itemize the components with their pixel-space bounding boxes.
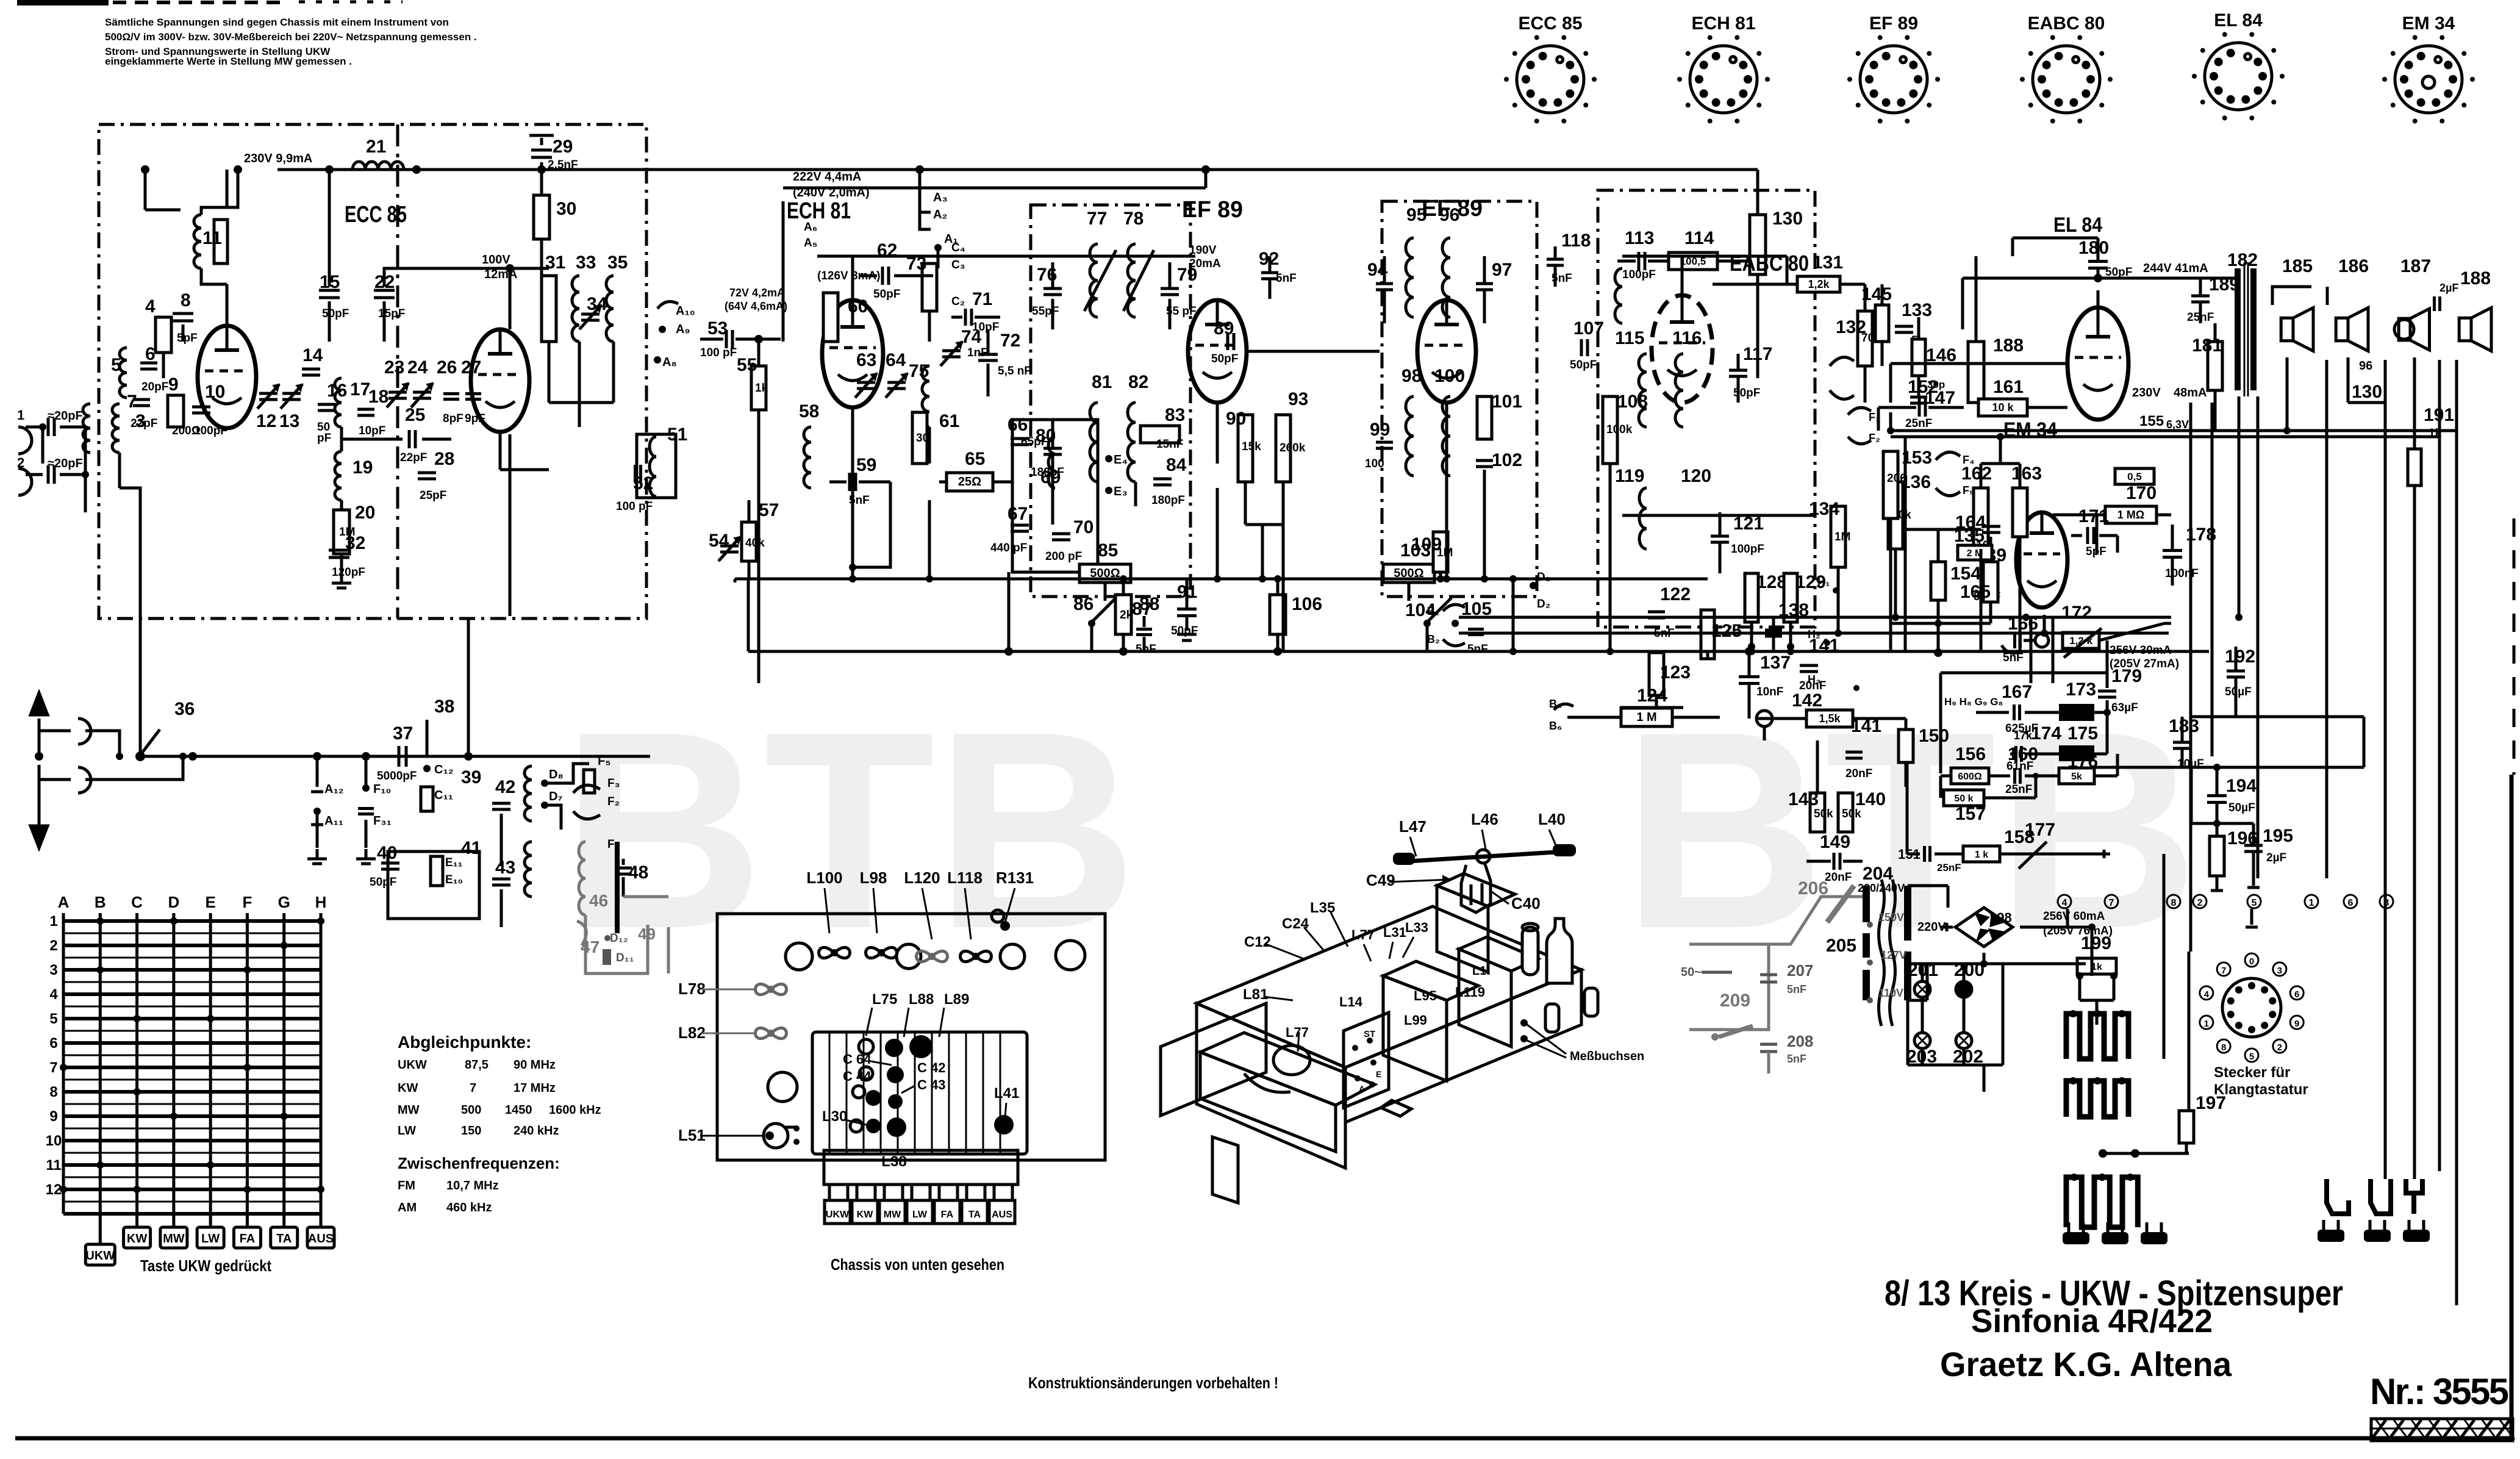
wire UKW out	[509, 434, 512, 616]
svg-text:160: 160	[2008, 744, 2038, 764]
svg-text:5nF: 5nF	[1787, 1053, 1806, 1065]
svg-text:7: 7	[470, 1081, 476, 1095]
svg-text:F₁₀: F₁₀	[373, 783, 392, 796]
wire input to box	[118, 453, 121, 488]
coil 3 input	[83, 404, 90, 416]
svg-text:73: 73	[906, 254, 926, 274]
coil 69	[1048, 437, 1055, 454]
EM34 tube	[2016, 512, 2067, 608]
svg-text:27: 27	[461, 357, 481, 378]
capacitor 18	[357, 408, 374, 411]
resistor 114	[1669, 253, 1717, 270]
svg-text:EM 34: EM 34	[2402, 13, 2455, 34]
EL84 tube	[2067, 307, 2128, 420]
svg-text:5000pF: 5000pF	[377, 770, 417, 783]
svg-text:187: 187	[2400, 256, 2431, 276]
svg-text:175: 175	[2067, 723, 2098, 744]
coil 19 osc	[335, 451, 342, 464]
svg-text:162: 162	[1961, 464, 1992, 484]
svg-text:D₁₂: D₁₂	[610, 932, 628, 945]
terminal A12 A11	[313, 752, 321, 761]
wire plug mid	[39, 729, 71, 733]
long vertical 3592	[2189, 403, 2192, 952]
svg-text:122: 122	[1660, 584, 1691, 604]
svg-text:30: 30	[556, 199, 576, 219]
svg-text:99: 99	[1370, 420, 1390, 440]
wire 30 down	[540, 239, 543, 342]
svg-text:L77: L77	[1351, 927, 1375, 942]
resistor 60	[823, 293, 838, 342]
svg-text:3: 3	[2384, 898, 2389, 908]
resistor 161 10k	[1978, 399, 2027, 416]
svg-text:135: 135	[1954, 526, 1985, 546]
box 66-70	[1012, 420, 1098, 572]
svg-text:12: 12	[256, 411, 276, 431]
svg-text:L100: L100	[806, 869, 842, 887]
svg-text:31: 31	[545, 253, 565, 273]
coil 33	[572, 276, 579, 292]
svg-text:84: 84	[1166, 455, 1187, 475]
svg-text:150: 150	[1919, 726, 1949, 746]
svg-text:UKW: UKW	[398, 1058, 427, 1072]
thick bar 46	[615, 842, 620, 933]
svg-text:22pF: 22pF	[400, 451, 427, 464]
capacitor C ant1	[26, 426, 43, 429]
svg-text:205: 205	[1826, 936, 1856, 956]
svg-text:90: 90	[1226, 409, 1246, 429]
svg-text:C40: C40	[1511, 894, 1541, 912]
svg-text:1,5k: 1,5k	[1819, 712, 1841, 725]
svg-text:50pF: 50pF	[873, 288, 900, 301]
svg-text:D₈: D₈	[549, 768, 564, 781]
diode terminals	[1830, 357, 1854, 366]
svg-text:Klangtastatur: Klangtastatur	[2214, 1081, 2308, 1098]
svg-text:5: 5	[2249, 1052, 2254, 1062]
svg-text:195: 195	[2263, 826, 2293, 846]
svg-text:L31: L31	[1383, 925, 1406, 940]
bottom border line	[15, 1436, 2513, 1441]
resistor 134	[1831, 506, 1845, 567]
svg-text:107: 107	[1573, 318, 1604, 339]
twin wire lower	[1459, 632, 2169, 635]
coil 75	[922, 366, 929, 381]
trimmer 12	[259, 392, 277, 395]
comb hook right 3	[2406, 1179, 2422, 1193]
wire bus left drop	[747, 579, 750, 651]
svg-text:L38: L38	[881, 1153, 906, 1170]
IF transformer 77 78	[1090, 244, 1098, 262]
svg-text:C 42: C 42	[917, 1060, 945, 1075]
capacitor 97	[1476, 282, 1493, 285]
svg-text:167: 167	[2002, 682, 2032, 702]
svg-text:102: 102	[1492, 450, 1522, 470]
perspective front box	[1200, 1052, 1336, 1152]
svg-text:440 pF: 440 pF	[990, 542, 1027, 554]
svg-text:B: B	[95, 893, 106, 911]
hatched bar	[2371, 1419, 2513, 1441]
svg-text:38: 38	[434, 697, 454, 717]
svg-text:MW: MW	[398, 1103, 420, 1117]
svg-text:230V: 230V	[2132, 386, 2161, 400]
capacitor 48	[615, 867, 632, 870]
wire 31-35 bottom	[549, 401, 614, 404]
svg-text:87,5: 87,5	[465, 1058, 489, 1072]
chassis lower panel	[824, 1150, 1018, 1185]
svg-text:180pF: 180pF	[1031, 466, 1064, 479]
svg-text:25nF: 25nF	[1905, 417, 1932, 430]
svg-text:2µF: 2µF	[2266, 851, 2286, 864]
wires speakers	[2272, 287, 2311, 305]
svg-text:7: 7	[2109, 898, 2114, 908]
svg-text:101: 101	[1492, 392, 1522, 412]
ground arrow	[38, 765, 41, 825]
leader lines top	[825, 888, 829, 933]
connector tabs right	[2318, 1230, 2344, 1242]
svg-text:7: 7	[49, 1059, 57, 1076]
svg-text:17 MHz: 17 MHz	[514, 1081, 556, 1095]
perspective can C tall	[1437, 886, 1488, 972]
svg-text:LW: LW	[201, 1232, 220, 1246]
svg-text:5: 5	[111, 355, 121, 375]
svg-text:9: 9	[2294, 1019, 2299, 1029]
wire 131 row	[1713, 283, 1797, 286]
svg-text:5nF: 5nF	[1467, 643, 1488, 656]
svg-text:48mA: 48mA	[2174, 386, 2207, 400]
wire net power	[2067, 909, 2092, 927]
capacitor 32 120pF	[329, 549, 349, 552]
gray mains wire bottom	[1689, 944, 1769, 1030]
wire 153 down	[1889, 412, 1892, 431]
svg-text:19: 19	[353, 457, 373, 478]
button FA	[234, 1227, 260, 1248]
capacitor 92 5nF	[1261, 271, 1278, 274]
svg-text:25pF: 25pF	[420, 489, 446, 502]
svg-text:Chassis von unten gesehen: Chassis von unten gesehen	[831, 1255, 1004, 1274]
svg-text:116: 116	[1672, 328, 1702, 348]
wire 125 129 to bus	[1706, 651, 1709, 659]
perspective foot	[1212, 1137, 1238, 1203]
svg-text:2: 2	[49, 937, 57, 954]
resistor 154	[1931, 562, 1945, 600]
node 100V	[506, 264, 514, 273]
svg-text:5: 5	[49, 1011, 57, 1027]
resistor 136	[1888, 482, 1903, 549]
capacitor 152 25nF	[1918, 398, 1921, 417]
svg-text:57: 57	[759, 500, 779, 520]
wire EL84 anode up	[2097, 290, 2100, 307]
node bus 2868	[1745, 647, 1753, 656]
svg-text:5k: 5k	[2071, 772, 2082, 782]
svg-text:6: 6	[2348, 898, 2354, 908]
svg-text:1 M: 1 M	[1636, 711, 1656, 724]
resistor 130	[1750, 215, 1766, 274]
tube socket ECH 81	[1690, 46, 1757, 113]
svg-text:100pF: 100pF	[1731, 543, 1764, 556]
svg-text:140: 140	[1855, 789, 1886, 809]
svg-text:62: 62	[877, 240, 897, 260]
svg-text:A: A	[1359, 1084, 1365, 1094]
chassis tabs	[829, 1185, 848, 1200]
resistor 20 1M	[334, 510, 349, 554]
svg-text:B₂: B₂	[1427, 633, 1440, 645]
verticals right mid	[2286, 357, 2289, 431]
antenna plug arcs	[18, 427, 32, 454]
svg-text:48: 48	[628, 862, 648, 883]
svg-text:95: 95	[1406, 205, 1426, 225]
svg-text:25nF: 25nF	[1937, 862, 1961, 873]
resistor 124 1M	[1621, 708, 1672, 726]
IF dash-dot box A	[1031, 205, 1190, 597]
wire h 706	[1891, 429, 2457, 432]
svg-text:5nF: 5nF	[1136, 643, 1156, 656]
svg-text:8pF: 8pF	[443, 412, 464, 425]
svg-text:206: 206	[1798, 878, 1828, 898]
capacitor 67 440pF	[1011, 524, 1029, 527]
svg-text:2: 2	[2277, 1042, 2282, 1053]
wire 124 row	[1567, 716, 1620, 719]
wire EM34 bottom	[2030, 617, 2033, 683]
svg-text:L41: L41	[994, 1085, 1019, 1102]
svg-text:46: 46	[589, 891, 608, 910]
svg-text:50µF: 50µF	[2228, 801, 2255, 814]
svg-text:1 k: 1 k	[1975, 850, 1988, 860]
svg-text:161: 161	[1993, 377, 2024, 397]
svg-text:188: 188	[2460, 268, 2491, 289]
perspective slab top	[1197, 906, 1581, 1067]
svg-text:C₁₁: C₁₁	[434, 789, 453, 802]
svg-text:94: 94	[1367, 260, 1388, 280]
svg-text:78: 78	[1123, 209, 1144, 229]
wire 90 93 down	[1244, 482, 1247, 525]
svg-text:5nF: 5nF	[1276, 272, 1297, 285]
svg-text:185: 185	[2282, 256, 2313, 276]
wire EF1 out	[1247, 350, 1380, 353]
svg-text:192: 192	[2225, 647, 2255, 667]
svg-text:197: 197	[2196, 1093, 2226, 1113]
tube socket EABC 80	[2033, 46, 2100, 113]
wire 150 to row E	[1906, 762, 1909, 854]
circled terminals row	[2058, 895, 2071, 908]
svg-text:63µF: 63µF	[2111, 701, 2138, 714]
svg-text:100 pF: 100 pF	[616, 500, 653, 513]
coil 21	[353, 162, 365, 170]
perspective slab front	[1197, 1003, 1345, 1168]
svg-text:C 43: C 43	[917, 1077, 945, 1092]
coil 47 gray	[577, 921, 586, 945]
ground 20	[340, 573, 343, 583]
resistor 4	[162, 317, 165, 378]
svg-text:6,3V: 6,3V	[2166, 418, 2189, 431]
svg-text:97: 97	[1492, 260, 1512, 280]
svg-text:TA: TA	[968, 1210, 981, 1220]
svg-text:33: 33	[576, 253, 596, 273]
node bus 2095	[1273, 647, 1282, 656]
wire trafo bridge bottom	[1908, 999, 1927, 1002]
svg-text:600Ω: 600Ω	[1958, 772, 1982, 782]
svg-text:25Ω: 25Ω	[958, 475, 981, 489]
svg-text:Konstruktionsänderungen vorbe: Konstruktionsänderungen vorbehalten !	[1028, 1374, 1278, 1392]
perspective can A	[1383, 976, 1447, 1081]
trimmer 54	[720, 545, 739, 548]
wire 93 down	[1282, 525, 1285, 651]
perspective left plate	[1161, 1003, 1266, 1116]
svg-text:5: 5	[2252, 898, 2257, 908]
capacitor 70 200pF	[1052, 532, 1070, 536]
svg-text:L99: L99	[1404, 1013, 1427, 1028]
svg-text:L81: L81	[1243, 986, 1268, 1003]
wire 11 top	[201, 170, 238, 215]
switch 36	[139, 720, 142, 755]
wire 108 down	[1609, 464, 1612, 525]
button KW	[124, 1227, 151, 1248]
svg-text:4: 4	[2062, 898, 2067, 908]
wire 75 to bus	[928, 427, 931, 464]
svg-text:EABC 80: EABC 80	[1730, 251, 1809, 276]
capacitor 80 180pF	[1043, 447, 1062, 450]
wire 87 down	[1143, 637, 1146, 651]
svg-text:1: 1	[49, 913, 57, 930]
wire y716 em	[1904, 437, 1907, 651]
svg-text:82: 82	[1128, 372, 1148, 392]
long vertical 3702	[2257, 396, 2260, 878]
wire 152 left	[1878, 406, 1891, 409]
svg-text:10pF: 10pF	[359, 425, 385, 437]
svg-text:67: 67	[1008, 504, 1028, 524]
svg-text:L33: L33	[1405, 920, 1428, 935]
svg-text:50µF: 50µF	[2225, 686, 2252, 698]
tube socket EF 89	[1860, 46, 1927, 113]
svg-text:61: 61	[939, 411, 959, 431]
node bus 1842	[1119, 647, 1128, 656]
wire 199 down	[2078, 988, 2082, 1000]
svg-text:E₃: E₃	[1114, 485, 1128, 498]
svg-text:LW: LW	[912, 1210, 928, 1220]
svg-text:1M: 1M	[1835, 531, 1850, 543]
svg-text:60: 60	[848, 296, 868, 317]
svg-text:149: 149	[1820, 832, 1850, 852]
coil 11	[194, 215, 201, 228]
capacitor 29	[540, 162, 543, 170]
svg-text:25nF: 25nF	[2005, 783, 2032, 796]
wire osc net	[853, 482, 890, 567]
perspective ST panel	[1344, 1013, 1389, 1108]
svg-text:100pF: 100pF	[1622, 268, 1656, 281]
svg-text:L88: L88	[909, 991, 934, 1008]
svg-text:156: 156	[1955, 744, 1986, 764]
svg-text:L98: L98	[860, 869, 887, 887]
resistor 93 260k	[1276, 415, 1290, 482]
tube socket EM 34	[2395, 46, 2462, 113]
long vertical 3959	[2413, 437, 2416, 1179]
svg-text:C 64: C 64	[843, 1052, 872, 1067]
svg-text:190V: 190V	[1189, 244, 1217, 257]
resistor 165	[1983, 562, 1998, 602]
perspective tube bottle	[1547, 919, 1572, 983]
svg-text:100k: 100k	[1606, 423, 1633, 436]
svg-text:200: 200	[1887, 472, 1906, 485]
svg-text:C₂: C₂	[951, 295, 965, 308]
capacitor 180 50pF	[2088, 260, 2108, 263]
svg-text:L46: L46	[1471, 810, 1498, 828]
svg-text:F₃: F₃	[607, 777, 620, 790]
svg-text:1 MΩ: 1 MΩ	[2117, 509, 2144, 521]
svg-text:113: 113	[1625, 228, 1654, 248]
node HT bus junction	[412, 165, 421, 174]
wire EM34 mesh v1	[1980, 549, 1983, 651]
capacitor 121 100pF	[1711, 535, 1729, 538]
svg-text:ST: ST	[1364, 1029, 1375, 1039]
svg-text:KW: KW	[127, 1232, 147, 1246]
svg-text:F: F	[242, 893, 252, 911]
wire 11 bottom	[201, 268, 227, 284]
capacitor 122 5nF	[1648, 611, 1665, 614]
resistor 106	[1270, 595, 1286, 634]
perspective tube small	[1522, 927, 1538, 975]
node bus 1654	[1004, 647, 1013, 656]
svg-text:90 MHz: 90 MHz	[514, 1058, 556, 1072]
capacitor 164	[1982, 525, 2000, 528]
node bus 2362	[1439, 572, 1442, 579]
svg-text:10 k: 10 k	[1992, 401, 2014, 414]
resistor 153	[1883, 451, 1898, 518]
svg-text:L47: L47	[1399, 817, 1426, 836]
svg-text:EF 89: EF 89	[1182, 197, 1243, 223]
svg-text:88: 88	[1139, 594, 1159, 614]
svg-text:D₇: D₇	[549, 790, 562, 803]
svg-text:165: 165	[1960, 582, 1991, 602]
capacitor 76 55pF	[1043, 287, 1062, 290]
pot 172 1,2k	[2035, 634, 2049, 647]
svg-text:100: 100	[1365, 457, 1384, 470]
capacitor 14	[302, 368, 320, 371]
capacitor 6	[140, 362, 157, 365]
EF89 tube 1	[1188, 300, 1247, 403]
svg-text:133: 133	[1902, 300, 1932, 320]
wire 85 to switch	[1104, 583, 1107, 601]
connector tabs left	[2063, 1232, 2089, 1244]
wire tube2 anode	[509, 268, 512, 329]
wire ECC bus drop left	[144, 170, 147, 210]
svg-text:71: 71	[972, 289, 992, 309]
svg-text:L1.: L1.	[1472, 964, 1490, 978]
trim arrows 77	[1084, 250, 1116, 311]
Klangtastatur pins	[2248, 982, 2255, 989]
svg-text:127V: 127V	[1881, 949, 1906, 961]
wire 100V right	[482, 267, 549, 270]
svg-text:AM: AM	[398, 1201, 417, 1214]
capacitor C12 C11	[423, 765, 431, 772]
svg-text:H: H	[315, 893, 327, 911]
wire EF2 bottom	[1445, 403, 1448, 579]
svg-text:D₁₁: D₁₁	[616, 952, 634, 964]
capacitor 40 50pF	[381, 862, 399, 865]
svg-text:L119: L119	[1455, 984, 1485, 1000]
resistor 30	[540, 170, 543, 195]
svg-text:B₆: B₆	[1549, 720, 1562, 732]
svg-text:170: 170	[2126, 483, 2157, 503]
svg-text:179: 179	[2111, 666, 2142, 686]
svg-text:Nr.: 3555: Nr.: 3555	[2370, 1371, 2509, 1412]
capacitor 7	[133, 398, 150, 401]
svg-text:50~: 50~	[1681, 966, 1702, 979]
perspective slot	[1381, 1100, 1411, 1116]
svg-text:37: 37	[393, 723, 413, 744]
L51 symbol	[764, 1124, 788, 1148]
wire 130 down	[1756, 342, 1759, 378]
svg-text:eingeklammerte Werte in Stel: eingeklammerte Werte in Stellung MW geme…	[105, 56, 352, 67]
svg-text:2µF: 2µF	[2439, 282, 2458, 294]
comb switch bank 2	[2066, 1081, 2128, 1117]
